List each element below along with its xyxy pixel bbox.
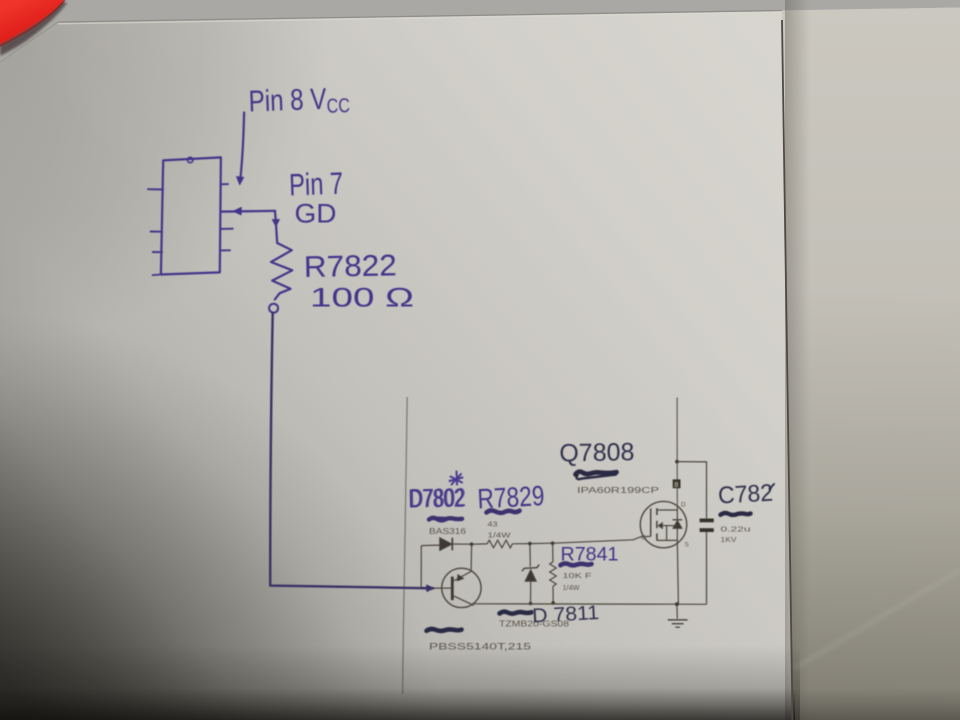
sheet divider line [782,20,793,720]
star mark [450,472,463,485]
pin number 8 badge [673,479,681,488]
svg-text:PBSS5140T,215: PBSS5140T,215 [429,642,531,653]
resistor R7822 [271,221,292,299]
bottom-left crossed Q7801 [427,629,462,631]
junction node C [551,541,555,545]
printed text [429,480,751,652]
wire left loop to base [421,546,442,589]
wire to capacitor [677,462,707,519]
wire [530,542,553,544]
paper top edge [58,11,782,23]
under D7802 [429,518,462,521]
handwritten labels [248,82,774,627]
svg-text:G: G [641,535,646,542]
capacitor C782 [700,519,714,523]
svg-text:R7822: R7822 [304,249,398,284]
junction node D [675,460,679,464]
svg-text:1/4W: 1/4W [488,531,512,540]
red object top-left [0,1,67,56]
under R7829 [487,510,520,512]
wire bottom rail [474,603,707,606]
transistor Q7801 PBSS5140T [442,568,481,607]
junction node B [528,542,532,546]
wire top rail [421,544,439,547]
wire long down and right to base [270,313,433,589]
svg-text:C782: C782 [717,480,773,510]
svg-text:0.22u: 0.22u [721,525,751,534]
wire [472,543,487,545]
IC U1 right pins 8,6,5 [221,183,228,185]
wire [512,543,530,545]
svg-text:1KV: 1KV [721,535,737,544]
svg-text:43: 43 [488,520,498,529]
svg-text:S: S [685,542,690,549]
transistor Q7808 MOSFET IPA60R199CP [640,501,686,547]
svg-text:100 Ω: 100 Ω [310,283,414,313]
svg-text:1/4W: 1/4W [563,583,581,592]
C782 tick [770,484,775,489]
wire drain vertical [676,398,678,505]
diode D7802 BAS316 [440,538,452,551]
svg-text:Q7808: Q7808 [559,438,634,467]
resistor R7829 [487,540,512,548]
scribble marks [427,472,775,631]
wire capacitor lower lead [706,532,708,604]
wire to gate [553,536,651,543]
svg-text:BAS316: BAS316 [429,527,467,536]
svg-text:8: 8 [674,480,678,489]
IC U1 body [161,157,221,274]
right sheet crease highlight [795,570,960,668]
svg-text:10K F: 10K F [563,571,593,580]
node open terminal [269,304,278,313]
under R7841 [561,563,592,565]
wire Vcc to pin 8 [241,113,245,178]
svg-text:D: D [681,502,686,509]
zener diode D7811 TZMB20-GS08 [529,544,531,567]
wire printed vertical line [403,397,408,694]
svg-text:D 7811: D 7811 [532,602,600,627]
under Q7808 [576,472,617,475]
wire pin 7 with arrow [222,210,276,213]
svg-text:D7802: D7802 [409,482,466,513]
svg-text:Pin 7: Pin 7 [289,166,344,203]
ground [675,602,679,606]
svg-text:GD: GD [295,199,337,229]
under C782 [721,513,751,515]
junction node A [470,542,474,546]
resistor R7841 [552,543,554,562]
svg-text:IPA60R199CP: IPA60R199CP [577,485,659,495]
IC U1 left pins [148,188,163,190]
on bottom rail (crossed D7811) [500,612,532,614]
